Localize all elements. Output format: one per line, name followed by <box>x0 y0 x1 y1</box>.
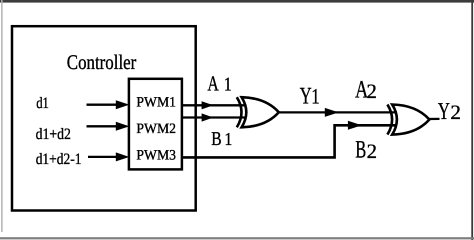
svg-text:2: 2 <box>450 102 461 124</box>
svg-text:B: B <box>211 129 221 150</box>
label A1 <box>207 72 231 96</box>
svg-text:1: 1 <box>224 75 232 96</box>
label B1 <box>211 129 232 150</box>
PWM block box <box>129 79 182 170</box>
svg-text:PWM2: PWM2 <box>136 121 176 137</box>
label A2 <box>355 77 377 104</box>
svg-text:Controller: Controller <box>67 51 137 74</box>
frame right border <box>471 0 473 240</box>
svg-text:2: 2 <box>367 81 377 103</box>
label Y2 <box>438 98 461 125</box>
svg-text:A: A <box>207 72 219 96</box>
svg-text:Y: Y <box>438 98 450 125</box>
frame bottom border <box>0 237 474 239</box>
input arrow 3 (d1+d2-1 to PWM3) <box>88 152 129 161</box>
wire Y1 to A2 (XOR1 output to XOR2 upper input) <box>279 108 397 117</box>
svg-text:B: B <box>355 137 366 164</box>
svg-text:d1: d1 <box>36 95 49 112</box>
frame top border <box>0 0 474 3</box>
wire B2 (PWM3 output to XOR2 lower input) <box>181 121 397 158</box>
svg-text:Y: Y <box>300 84 312 110</box>
svg-text:d1+d2: d1+d2 <box>36 126 71 143</box>
svg-text:2: 2 <box>367 141 377 163</box>
svg-text:1: 1 <box>224 129 232 149</box>
svg-text:PWM1: PWM1 <box>136 94 176 110</box>
wire A1 (PWM1 output to XOR1 upper input) <box>181 101 247 109</box>
frame left border <box>1 0 2 232</box>
XOR gate U1 <box>237 97 279 127</box>
label B2 <box>355 137 377 164</box>
svg-text:1: 1 <box>311 85 320 109</box>
svg-text:d1+d2-1: d1+d2-1 <box>36 151 82 168</box>
label Y1 <box>300 84 320 110</box>
svg-text:PWM3: PWM3 <box>136 147 176 163</box>
XOR gate U2 <box>387 105 429 135</box>
input arrow 2 (d1+d2 to PWM2) <box>87 122 130 131</box>
wire B1 (PWM2 output to XOR1 lower input) <box>181 113 247 121</box>
input arrow 1 (d1 to PWM1) <box>87 100 130 109</box>
controller box <box>12 26 196 210</box>
wire Y2 output stub <box>429 118 440 120</box>
